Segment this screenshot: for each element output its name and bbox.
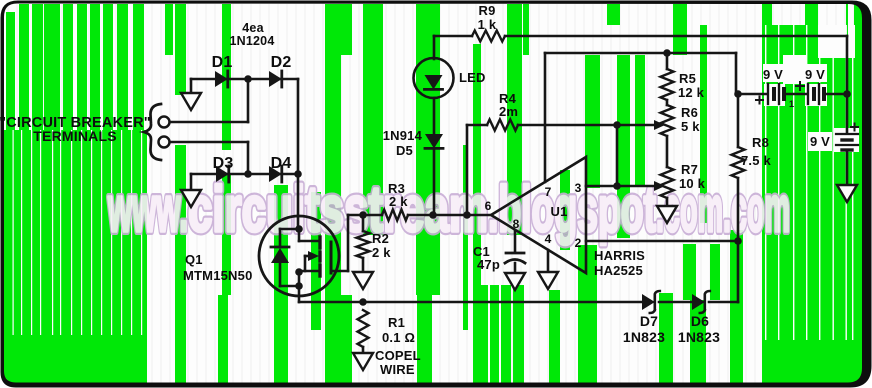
wire LED top — [433, 36, 436, 59]
resistor R6 — [661, 105, 674, 136]
resistor R2 — [362, 215, 365, 231]
svg-text:1 k: 1 k — [478, 17, 497, 32]
LED circle — [414, 58, 454, 98]
svg-text:D3: D3 — [213, 155, 234, 172]
resistor R7 — [661, 167, 674, 198]
ground C1 — [505, 273, 525, 290]
wire D2 to drain — [297, 79, 300, 216]
svg-text:HA2525: HA2525 — [594, 263, 643, 278]
svg-text:.com: .com — [723, 173, 790, 245]
wire rail2 corner — [735, 53, 738, 94]
capacitor C1 — [506, 252, 524, 255]
node Q1 source stub — [295, 268, 303, 276]
ground R7 — [657, 206, 677, 223]
resistor R4 — [487, 120, 518, 131]
node R4 bottom — [463, 211, 471, 219]
battery B2 — [807, 84, 809, 104]
svg-text:D5: D5 — [396, 143, 413, 158]
svg-text:7.5 k: 7.5 k — [741, 153, 771, 168]
ground pin4 — [538, 272, 558, 289]
wire to battery B3 — [846, 94, 849, 133]
wire rail1 corner — [846, 36, 849, 94]
wire R7 bottom — [666, 198, 669, 206]
resistor R3 — [382, 210, 408, 221]
resistor R8 lead — [737, 94, 740, 147]
wire R4 to wiper node — [518, 124, 617, 127]
svg-text:2 k: 2 k — [389, 194, 408, 209]
svg-text:R5: R5 — [679, 71, 696, 86]
ground R2 — [353, 272, 373, 289]
resistor R1 — [358, 310, 369, 347]
wire R6-R7 — [666, 100, 669, 105]
svg-text:circuitsstream: circuitsstream — [188, 173, 488, 245]
svg-text:12 k: 12 k — [678, 85, 705, 100]
wire B3 to ground — [846, 150, 849, 185]
node D4 right junction — [294, 170, 302, 178]
diode D5 — [425, 134, 443, 148]
svg-text:8: 8 — [513, 217, 520, 231]
terminal bottom — [159, 137, 170, 148]
wire R3 to opamp — [408, 214, 491, 217]
node R1 top — [359, 298, 367, 306]
svg-text:10 k: 10 k — [679, 176, 706, 191]
plus mark B3 — [851, 124, 858, 131]
svg-text:1N914: 1N914 — [383, 128, 423, 143]
svg-text:1N1204: 1N1204 — [230, 34, 275, 48]
svg-text:2: 2 — [575, 236, 582, 250]
diode D2 — [269, 71, 282, 87]
wire battery right — [826, 93, 847, 96]
svg-text:3: 3 — [575, 181, 582, 195]
svg-text:0.1 Ω: 0.1 Ω — [382, 330, 415, 345]
wire R8 bottom — [737, 178, 740, 241]
battery B3 — [836, 133, 858, 135]
Q1 body diode — [271, 246, 289, 249]
svg-text:LED: LED — [459, 70, 486, 85]
svg-text:1N823: 1N823 — [623, 329, 665, 345]
ground input bottom — [190, 174, 193, 190]
R7 wiper arrow — [617, 185, 655, 188]
svg-text:47p: 47p — [477, 257, 500, 272]
wire bottom terminal down — [247, 142, 250, 174]
wire pin8 C1 — [514, 230, 517, 252]
transistor Q1 circle — [259, 216, 339, 296]
ground input top — [190, 79, 193, 93]
wire vertical junction to top terminal — [247, 79, 250, 122]
svg-text:MTM15N50: MTM15N50 — [183, 268, 253, 283]
wire R4 left — [466, 125, 469, 215]
diode D3 — [216, 166, 229, 182]
svg-text:9 V: 9 V — [810, 134, 830, 149]
watermark — [108, 173, 790, 245]
wire pin3 out — [586, 185, 614, 188]
svg-text:7: 7 — [545, 185, 552, 199]
svg-text:R9: R9 — [478, 3, 495, 18]
wire pin7 supply — [544, 53, 547, 182]
svg-text:www.: www. — [108, 173, 188, 245]
svg-text:U1: U1 — [550, 204, 567, 219]
wire bottom rail — [299, 301, 642, 304]
wire pin2 out — [586, 240, 737, 243]
svg-text:2m: 2m — [499, 104, 518, 119]
wire right column — [737, 241, 740, 302]
op-amp U1 — [491, 157, 586, 273]
zener D7 — [642, 294, 655, 310]
brace terminals — [144, 104, 161, 160]
node D3-D4 junction — [244, 170, 252, 178]
svg-text:WIRE: WIRE — [380, 362, 415, 377]
svg-text:Q1: Q1 — [185, 252, 203, 267]
svg-text:R1: R1 — [388, 315, 405, 330]
svg-text:.blogspot: .blogspot — [488, 173, 656, 245]
svg-text:R2: R2 — [372, 231, 389, 246]
node R2 top — [359, 211, 367, 219]
Q1 gate bar — [330, 242, 333, 273]
wire gate node — [348, 214, 382, 217]
svg-text:5 k: 5 k — [681, 119, 700, 134]
wire drain into Q1 — [297, 216, 300, 229]
resistor R8 — [732, 147, 745, 178]
diode D1 — [215, 71, 228, 87]
svg-text:HARRIS: HARRIS — [594, 248, 645, 263]
node D1-D2 junction — [244, 75, 252, 83]
Q1 arrow — [305, 255, 314, 258]
svg-text:D2: D2 — [271, 54, 292, 71]
Q1 body diode branch — [280, 228, 299, 231]
node battery right — [843, 90, 851, 98]
node Q1 source join — [295, 282, 303, 290]
wire Q1 source — [298, 271, 301, 302]
node Q1 drain — [295, 225, 303, 233]
resistor R5 — [661, 69, 674, 100]
battery B1 — [767, 84, 769, 104]
diode D4 — [269, 166, 282, 182]
svg-text:1N823: 1N823 — [678, 329, 720, 345]
node D5 bottom — [429, 211, 437, 219]
svg-text:4: 4 — [545, 232, 552, 246]
wire pin4 — [547, 250, 550, 272]
wire top rail R9 — [434, 35, 472, 38]
wire LED to D5 — [433, 98, 436, 134]
Q1 source stub — [299, 270, 320, 273]
svg-text:COPEL: COPEL — [375, 348, 421, 363]
node pin3 — [613, 182, 621, 190]
zener D6 — [692, 294, 705, 310]
wire rail2 — [545, 52, 736, 55]
svg-text:6: 6 — [485, 199, 492, 213]
wire battery left — [738, 93, 766, 96]
Q1 drain stub — [298, 229, 301, 241]
svg-text:R6: R6 — [681, 105, 698, 120]
svg-text:9 V: 9 V — [763, 67, 783, 82]
svg-text:D7: D7 — [640, 313, 658, 329]
Q1 gate lead — [331, 270, 348, 273]
svg-text:4ea: 4ea — [242, 21, 264, 35]
wire D5 to node — [433, 150, 436, 215]
Q1 channel bar — [318, 237, 321, 248]
svg-text:1: 1 — [789, 99, 794, 109]
wire R5 top — [666, 53, 669, 69]
svg-text:D1: D1 — [212, 54, 233, 71]
node battery left — [734, 90, 742, 98]
resistor R9 — [472, 31, 505, 42]
wire between batteries — [786, 93, 806, 96]
node pin2 R8 — [734, 237, 742, 245]
svg-text:R7: R7 — [681, 162, 698, 177]
terminal top — [159, 117, 170, 128]
svg-text:9 V: 9 V — [805, 67, 825, 82]
ground B3 — [837, 185, 857, 202]
svg-text:R8: R8 — [752, 135, 769, 150]
svg-text:TERMINALS: TERMINALS — [33, 128, 116, 144]
node R6 wiper — [613, 121, 621, 129]
svg-text:D4: D4 — [271, 155, 292, 172]
svg-text:2 k: 2 k — [372, 245, 391, 260]
LED diode — [425, 75, 443, 89]
wire R6R7 tap — [616, 125, 619, 186]
ground R1 — [353, 353, 373, 370]
node R5 top — [663, 49, 671, 57]
plus sign B2 — [796, 82, 804, 90]
wire D1-D2 line — [191, 78, 298, 81]
wire D3-D4 line — [191, 173, 298, 176]
svg-text:D6: D6 — [691, 313, 709, 329]
R6 wiper arrow — [617, 124, 655, 127]
plus mark B1 — [756, 97, 763, 104]
